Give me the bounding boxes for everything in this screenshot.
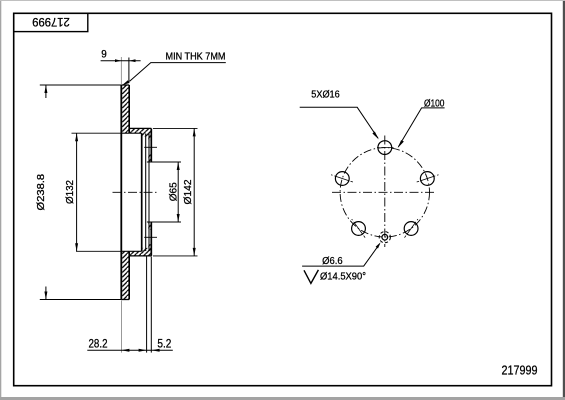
svg-text:Ø6.6: Ø6.6	[322, 255, 343, 267]
svg-text:Ø132: Ø132	[64, 180, 76, 204]
svg-text:217999: 217999	[502, 363, 538, 378]
svg-text:Ø65: Ø65	[167, 182, 179, 201]
svg-text:Ø142: Ø142	[182, 179, 194, 204]
svg-text:Ø14.5X90°: Ø14.5X90°	[320, 271, 366, 283]
svg-text:MIN THK 7MM: MIN THK 7MM	[166, 51, 226, 62]
svg-text:5.2: 5.2	[157, 336, 171, 350]
svg-text:28.2: 28.2	[89, 336, 108, 350]
svg-text:5XØ16: 5XØ16	[311, 88, 340, 100]
svg-text:217999: 217999	[32, 15, 70, 29]
svg-text:9: 9	[101, 48, 107, 60]
svg-text:Ø238.8: Ø238.8	[35, 174, 47, 211]
svg-text:Ø100: Ø100	[424, 97, 445, 109]
